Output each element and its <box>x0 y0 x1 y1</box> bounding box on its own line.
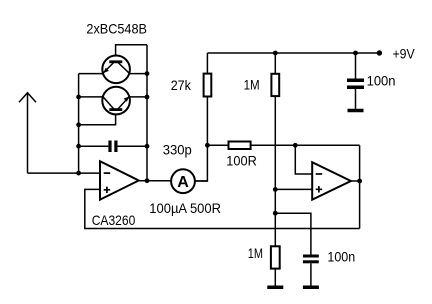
wire T2 base lead <box>79 110 116 125</box>
node right bus 330p junction <box>145 144 150 149</box>
node left bus T2 collector junction <box>76 95 81 100</box>
svg-text:330p: 330p <box>163 141 192 157</box>
wire 330p right lead <box>118 145 148 147</box>
wire T1 base top run <box>116 45 147 61</box>
wire 330p left lead <box>79 145 109 147</box>
node bus-op2 plus junction <box>273 187 278 192</box>
wire 27k bottom lead to meter node <box>194 97 207 182</box>
svg-text:100n: 100n <box>367 73 396 89</box>
op-amp U2 minus sign <box>316 173 323 175</box>
antenna input <box>19 93 36 173</box>
wire op2 plus input <box>275 188 312 190</box>
svg-text:1M: 1M <box>244 77 260 93</box>
node 100R-op2 minus branch <box>293 143 298 148</box>
transistor Q1 BC548B top <box>102 56 130 84</box>
wire 1M bottom long bus <box>274 96 276 246</box>
wire op2 output <box>351 180 360 182</box>
wire 1M bottom to ground <box>274 269 276 286</box>
node right bus T2 emitter junction <box>145 95 150 100</box>
wire op1 output to meter <box>139 180 172 182</box>
wire 27k top lead <box>206 53 208 74</box>
meter M1 100uA <box>171 169 195 193</box>
wire 100n bottom to ground <box>310 263 312 285</box>
resistor R1 27k <box>204 74 212 97</box>
wire 100R right lead to op2 output riser <box>251 144 360 146</box>
node +9V terminal <box>377 50 382 55</box>
node left bus bottom junction <box>76 171 81 176</box>
wire 100R left lead <box>207 144 229 146</box>
capacitor C3 330p <box>108 141 117 153</box>
wire antenna to op1 minus input <box>28 172 101 174</box>
svg-text:1M: 1M <box>248 245 263 261</box>
wire right bus <box>146 45 148 181</box>
transistor Q2 BC548B bottom <box>102 87 130 115</box>
svg-text:100µA 500R: 100µA 500R <box>149 200 221 216</box>
svg-text:A: A <box>177 174 189 191</box>
svg-text:CA3260: CA3260 <box>92 212 136 228</box>
node bus-100n branch junction <box>273 211 278 216</box>
wire op2 minus input branch <box>295 145 312 174</box>
op-amp U1 plus sign <box>104 187 110 193</box>
node op2 output junction <box>357 179 362 184</box>
wire 1M top lead <box>274 53 276 74</box>
wire feedback bottom run to op1 plus <box>85 189 360 228</box>
node op1 output junction <box>145 178 150 183</box>
wire meter to 27k riser <box>195 180 208 182</box>
svg-text:100R: 100R <box>226 153 256 169</box>
ground for C2 <box>303 286 319 290</box>
wire T1 emitter lead <box>79 73 104 75</box>
resistor R2 100R <box>229 142 251 150</box>
ground for C1 <box>348 109 364 113</box>
node rail-1M junction <box>273 51 278 56</box>
svg-text:100n: 100n <box>327 248 355 264</box>
wire 100n top lead <box>355 53 357 79</box>
op-amp U1 CA3260 <box>100 161 139 200</box>
wire T2 collector lead <box>79 96 104 98</box>
wire T1 collector lead <box>128 73 147 75</box>
svg-text:+9V: +9V <box>393 46 416 62</box>
wire +9V rail <box>207 52 379 54</box>
node rail-100n junction <box>353 51 358 56</box>
node left bus 330p junction <box>76 144 81 149</box>
op-amp U1 minus sign <box>104 172 111 174</box>
capacitor C1 100n top <box>347 79 364 90</box>
node 27k-100R-meter junction <box>205 143 210 148</box>
capacitor C2 100n bottom <box>303 255 319 264</box>
op-amp U2 <box>312 162 351 200</box>
wire op2 feedback riser <box>359 145 361 228</box>
wire T2 emitter lead <box>128 96 147 98</box>
wire bus to 100n bottom <box>275 213 311 254</box>
wire left bus <box>78 74 80 174</box>
resistor R4 1M bottom <box>271 246 280 268</box>
resistor R3 1M <box>271 74 279 96</box>
ground for R4 <box>267 286 283 290</box>
node right bus T1 collector junction <box>145 71 150 76</box>
op-amp U2 plus sign <box>316 186 322 192</box>
node left bus T2 base junction <box>76 122 81 127</box>
svg-text:27k: 27k <box>171 77 192 93</box>
wire 100n to ground <box>355 89 357 109</box>
svg-text:2xBC548B: 2xBC548B <box>86 21 147 37</box>
